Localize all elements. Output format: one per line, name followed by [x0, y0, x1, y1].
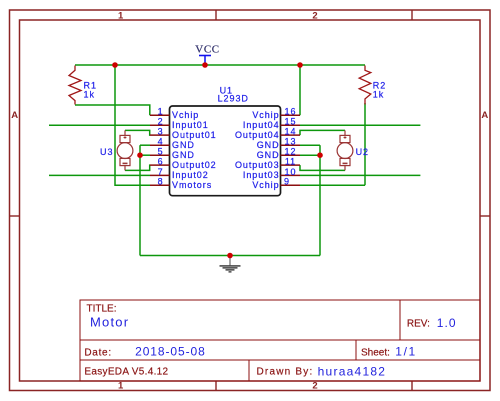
U1 pin numbers right	[284, 107, 296, 187]
wire R2 bottom rail x=365	[364, 103, 366, 185]
wire right GND rail x=320	[319, 145, 321, 255]
svg-text:14: 14	[285, 127, 297, 137]
svg-text:Sheet:: Sheet:	[361, 347, 390, 358]
svg-text:8: 8	[158, 177, 164, 187]
wire pin12 to right GND rail	[300, 154, 320, 156]
wire U3 bottom to pin6	[125, 165, 150, 170]
frame tick left y=216	[10, 215, 20, 217]
svg-text:Vchip: Vchip	[172, 110, 199, 120]
motor U2	[337, 130, 353, 170]
junction dot left GND rail pin5	[137, 152, 143, 158]
svg-text:2: 2	[312, 11, 317, 22]
wire left GND rail x=140	[139, 145, 141, 255]
svg-text:GND: GND	[257, 150, 280, 160]
svg-text:GND: GND	[172, 140, 195, 150]
svg-text:1/1: 1/1	[395, 345, 416, 359]
wire VCC bus y=65	[75, 64, 365, 66]
wire stub pin2 Input01	[49, 124, 150, 126]
U1 pins right 16-9	[281, 115, 301, 185]
U1 pins left 1-8	[150, 115, 170, 185]
svg-text:VCC: VCC	[195, 43, 219, 55]
junction dot right GND rail pin12	[317, 152, 323, 158]
svg-text:huraa4182: huraa4182	[318, 364, 387, 378]
svg-text:1: 1	[158, 107, 164, 117]
wire R1 bottom to pin1	[75, 105, 150, 115]
svg-text:5: 5	[158, 147, 164, 157]
svg-text:15: 15	[285, 117, 297, 127]
svg-text:10: 10	[285, 167, 297, 177]
frame tick bottom x=216	[215, 381, 217, 391]
svg-text:Vchip: Vchip	[252, 180, 279, 190]
resistor R1	[69, 66, 81, 105]
svg-text:Input03: Input03	[243, 170, 280, 180]
svg-text:EasyEDA V5.4.12: EasyEDA V5.4.12	[84, 367, 168, 378]
VCC net flag	[195, 43, 219, 64]
wire pin9 to R2 bottom	[300, 184, 365, 186]
svg-text:A: A	[11, 110, 18, 121]
frame tick top x=412	[411, 10, 413, 20]
wire bottom GND bus y=255.5	[140, 255, 320, 257]
svg-text:Input01: Input01	[172, 120, 209, 130]
svg-text:U2: U2	[356, 147, 369, 157]
wire pin10 Input03 stub	[300, 174, 420, 176]
svg-text:Output01: Output01	[172, 130, 217, 140]
svg-text:9: 9	[284, 177, 290, 187]
svg-text:3: 3	[158, 127, 164, 137]
U1 pin names left	[172, 110, 217, 190]
svg-text:2018-05-08: 2018-05-08	[135, 345, 206, 359]
frame tick right y=216	[480, 215, 490, 217]
title block outline	[80, 300, 480, 381]
wire pin15 Input04 stub	[300, 124, 420, 126]
op chip U1 body	[170, 106, 281, 196]
svg-text:11: 11	[285, 157, 296, 167]
svg-text:Output02: Output02	[172, 160, 217, 170]
svg-text:1k: 1k	[84, 89, 95, 99]
svg-text:1: 1	[118, 381, 124, 392]
svg-text:2: 2	[158, 117, 164, 127]
wire stub pin7 Input02	[49, 174, 150, 176]
frame tick bottom x=412	[411, 381, 413, 391]
wire pin5 to GND rail	[140, 154, 150, 156]
svg-text:U3: U3	[100, 147, 113, 157]
svg-text:2: 2	[312, 381, 317, 392]
junction dot ground	[227, 253, 233, 259]
svg-text:6: 6	[158, 157, 164, 167]
svg-text:Vmotors: Vmotors	[172, 180, 212, 190]
svg-text:1: 1	[118, 11, 124, 22]
svg-text:1.0: 1.0	[437, 316, 457, 330]
motor U3	[117, 130, 133, 170]
svg-text:Drawn By:: Drawn By:	[257, 367, 314, 378]
svg-text:L293D: L293D	[218, 93, 249, 103]
svg-text:4: 4	[158, 137, 164, 147]
svg-text:TITLE:: TITLE:	[87, 304, 117, 315]
wire pin13 to right GND rail	[300, 144, 320, 146]
svg-text:REV:: REV:	[407, 319, 430, 330]
svg-text:1k: 1k	[373, 89, 384, 99]
svg-text:GND: GND	[257, 140, 280, 150]
svg-text:12: 12	[285, 147, 297, 157]
svg-text:GND: GND	[172, 150, 195, 160]
wire rail x=300 VCC to pin16	[299, 65, 301, 115]
junction dot VCC-left rail	[112, 62, 118, 68]
U1 pin numbers left	[158, 107, 164, 187]
svg-text:7: 7	[158, 167, 164, 177]
resistor R2	[359, 66, 371, 105]
wire pin14 to U2 top	[300, 130, 345, 135]
svg-text:Output03: Output03	[235, 160, 280, 170]
svg-text:Date:: Date:	[84, 347, 111, 358]
wire pin4 to GND rail	[140, 144, 150, 146]
svg-text:Output04: Output04	[235, 130, 280, 140]
junction dot VCC flag	[202, 62, 208, 68]
wire U3 top to pin3	[125, 130, 150, 135]
svg-text:Input02: Input02	[172, 170, 209, 180]
junction dot VCC-right rail	[297, 62, 303, 68]
wire left rail x=115 from VCC to pin8 row	[115, 65, 150, 185]
svg-text:A: A	[481, 110, 488, 121]
svg-text:Vchip: Vchip	[252, 110, 279, 120]
svg-text:16: 16	[285, 107, 297, 117]
wire pin11 to U2 bottom	[300, 165, 345, 170]
frame tick top x=216	[215, 10, 217, 20]
ground symbol	[220, 256, 241, 272]
svg-text:13: 13	[285, 137, 297, 147]
U1 pin names right	[235, 110, 280, 190]
svg-text:Input04: Input04	[243, 120, 280, 130]
svg-text:Motor: Motor	[90, 315, 129, 330]
